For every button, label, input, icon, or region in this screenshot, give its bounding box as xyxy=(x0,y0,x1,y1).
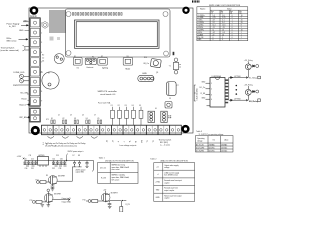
svg-text:0: 0 xyxy=(232,17,233,19)
capacitor C16 xyxy=(60,158,63,164)
svg-text:coupler: coupler xyxy=(164,182,170,184)
svg-text:4.75: 4.75 xyxy=(213,17,216,19)
capacitor C12 xyxy=(31,158,34,164)
svg-text:K2: K2 xyxy=(63,118,65,120)
svg-text:115VDC: 115VDC xyxy=(221,148,228,150)
svg-text:GND: GND xyxy=(156,197,161,199)
dual LED indicator xyxy=(54,54,64,64)
ground G4 xyxy=(108,207,112,209)
svg-text:GND sense: GND sense xyxy=(6,41,17,43)
svg-text:R_PD: R_PD xyxy=(126,204,131,206)
wire rail drop xyxy=(92,161,94,172)
svg-text:P11: P11 xyxy=(30,200,33,202)
svg-text:5: 5 xyxy=(41,62,42,64)
svg-text:13: 13 xyxy=(222,29,224,31)
zener diode ZD2 xyxy=(77,161,81,167)
label 24Vin GND sense xyxy=(6,38,28,43)
svg-text:0: 0 xyxy=(232,29,233,31)
svg-text:F4: F4 xyxy=(132,105,134,107)
svg-text:SMPS PS controller: SMPS PS controller xyxy=(98,90,118,93)
svg-text:5.25: 5.25 xyxy=(222,17,225,19)
diode D5 xyxy=(252,90,255,92)
zener diode ZD1 xyxy=(72,161,76,167)
svg-text:UVT960: UVT960 xyxy=(234,99,241,101)
svg-text:MOSFET: MOSFET xyxy=(58,175,65,177)
svg-text:C31: C31 xyxy=(31,168,34,170)
svg-text:P2: P2 xyxy=(92,56,94,58)
svg-text:R_US: R_US xyxy=(101,178,107,180)
resistor R6 xyxy=(40,181,46,184)
svg-text:3: 3 xyxy=(41,42,42,44)
svg-text:TM2: TM2 xyxy=(156,189,160,191)
svg-text:Mode: Mode xyxy=(126,68,131,70)
diode D3 xyxy=(252,65,255,67)
svg-text:2: 2 xyxy=(41,32,42,34)
svg-text:+TM1: +TM1 xyxy=(155,182,160,184)
svg-text:1: 1 xyxy=(241,34,242,36)
svg-text:230VAC: 230VAC xyxy=(221,144,228,147)
IC U1 pins right xyxy=(225,79,228,103)
label PWR xyxy=(13,85,29,87)
svg-text:1: 1 xyxy=(232,22,233,24)
svg-text:D7: D7 xyxy=(73,155,75,157)
fuse F3 xyxy=(125,105,129,125)
svg-text:GND: GND xyxy=(23,20,28,22)
wire gate 3 xyxy=(86,200,103,202)
jumper pads on terminal dividers xyxy=(51,120,102,124)
IC pin labels xyxy=(199,82,206,100)
table T0 grid xyxy=(197,7,248,41)
svg-text:DC(TL-PE): DC(TL-PE) xyxy=(196,148,205,150)
stamp mark xyxy=(192,0,199,2)
svg-text:2: 2 xyxy=(211,89,212,91)
svg-text:(TL-N-PE) (AC-DC-N) sense (lo: (TL-N-PE) (AC-DC-N) sense (low-res) xyxy=(45,145,77,148)
svg-text:R14: R14 xyxy=(144,57,147,59)
svg-text:Contrast: Contrast xyxy=(86,66,94,69)
svg-text:DC (N-PE): DC (N-PE) xyxy=(196,151,204,153)
LCD module xyxy=(65,9,170,57)
svg-text:8: 8 xyxy=(241,25,242,27)
pad K2 out xyxy=(258,99,261,102)
buzzer xyxy=(42,72,59,89)
svg-text:K1: K1 xyxy=(51,118,53,120)
svg-text:On: On xyxy=(213,139,215,141)
svg-text:C14: C14 xyxy=(52,158,55,160)
relay arrow K1 xyxy=(246,76,248,78)
Comm connector strip (left) xyxy=(30,16,41,106)
fuse F5 xyxy=(139,105,143,125)
svg-text:K4: K4 xyxy=(86,118,88,120)
terminal block row xyxy=(42,125,182,135)
svg-text:PWR: PWR xyxy=(13,85,18,87)
wire drain riser xyxy=(57,167,72,181)
svg-text:F1: F1 xyxy=(111,105,113,107)
terminal id labels vertical xyxy=(107,139,155,142)
transistor Q5 xyxy=(101,193,110,202)
label ISP jump xyxy=(20,117,31,120)
wire Q2 emitter xyxy=(247,95,249,100)
node bracket C AUX GA GND xyxy=(194,85,198,101)
svg-text:Y1: Y1 xyxy=(169,65,171,67)
label Thermal Switch must be connected xyxy=(1,46,30,52)
button S2 xyxy=(98,58,108,66)
capacitor C10 xyxy=(24,158,27,164)
svg-text:11: 11 xyxy=(213,29,215,31)
via cluster xyxy=(168,115,171,118)
wire drain out xyxy=(109,200,126,202)
svg-text:1.6: 1.6 xyxy=(222,15,224,17)
wire bus right of IC xyxy=(229,78,246,101)
resistor R8 xyxy=(92,200,98,203)
svg-text:C16: C16 xyxy=(60,158,63,160)
capacitor C14 xyxy=(52,158,55,164)
svg-text:R2: R2 xyxy=(42,55,44,57)
svg-text:Auto: Auto xyxy=(225,138,229,141)
svg-text:S2: S2 xyxy=(101,56,103,58)
table T3 grid xyxy=(196,136,234,152)
via +5V mark xyxy=(173,52,175,55)
svg-text:J3: J3 xyxy=(70,115,72,117)
label 24VDC power output GND xyxy=(76,169,86,173)
svg-text:11.4: 11.4 xyxy=(213,25,216,27)
table T0 rows xyxy=(198,15,243,41)
svg-text:1: 1 xyxy=(241,32,242,34)
svg-text:in V: in V xyxy=(211,12,213,14)
svg-text:T1: T1 xyxy=(147,140,149,142)
table T2 grid xyxy=(154,163,195,202)
svg-text:D4: D4 xyxy=(42,61,44,63)
wire output xyxy=(52,199,70,201)
table T2 text xyxy=(155,164,182,200)
transformer gray block xyxy=(49,10,66,33)
svg-text:Value: Value xyxy=(227,9,232,11)
capacitor C19 xyxy=(85,161,88,168)
svg-text:S1: S1 xyxy=(74,56,76,58)
connector J6 3-pin xyxy=(148,111,155,122)
IC U1 body xyxy=(210,78,225,108)
svg-text:26: 26 xyxy=(222,34,224,36)
rail part labels xyxy=(25,155,81,170)
svg-text:SMPS LOAD VOLTS DESCRIPTION: SMPS LOAD VOLTS DESCRIPTION xyxy=(209,4,241,7)
svg-text:P10: P10 xyxy=(83,199,86,201)
wire Q1 emitter xyxy=(247,70,249,78)
svg-text:4: 4 xyxy=(41,52,42,54)
svg-text:S3: S3 xyxy=(127,56,129,58)
svg-text:K8_Relay: K8_Relay xyxy=(249,101,259,103)
svg-text:On: On xyxy=(77,67,80,69)
svg-text:1: 1 xyxy=(232,20,233,22)
wire rail xyxy=(25,160,94,162)
brace terminal group 4 xyxy=(91,136,98,138)
svg-text:8: 8 xyxy=(41,91,42,93)
svg-text:4.9: 4.9 xyxy=(213,20,215,22)
svg-text:Fuse 5x20 T2A: Fuse 5x20 T2A xyxy=(98,102,111,105)
table T0 header text xyxy=(200,9,242,15)
svg-text:D8: D8 xyxy=(78,155,80,157)
svg-text:K3: K3 xyxy=(74,118,76,120)
ground G1 xyxy=(51,189,55,191)
svg-text:J7: J7 xyxy=(94,115,96,117)
ellipsis dots between stages xyxy=(236,85,238,95)
mounting hole top-left xyxy=(30,6,39,15)
ground G2 xyxy=(41,205,45,207)
svg-text:K5: K5 xyxy=(98,118,100,120)
label 24VDC power output xyxy=(67,150,84,160)
label Power Supply In 24V xyxy=(7,23,29,29)
svg-text:2: 2 xyxy=(241,17,242,19)
svg-text:C30: C30 xyxy=(25,168,28,170)
label Boot xyxy=(20,103,31,106)
svg-text:1: 1 xyxy=(211,83,212,85)
svg-text:3.2: 3.2 xyxy=(213,22,215,24)
svg-text:C12: C12 xyxy=(31,158,34,160)
svg-text:GND: GND xyxy=(142,73,147,75)
capacitor C17 xyxy=(51,185,55,189)
table T3 text xyxy=(196,137,228,153)
svg-text:Output to TL: Output to TL xyxy=(62,197,71,200)
label thermal switch NC xyxy=(159,139,172,147)
button S4 xyxy=(150,58,161,67)
svg-text:115VDC: 115VDC xyxy=(209,148,216,150)
svg-text:20: 20 xyxy=(241,22,243,24)
svg-text:C AUX GA GND: C AUX GA GND xyxy=(196,88,199,101)
svg-text:( + - in use): ( + - in use) xyxy=(160,145,170,147)
capacitor C13 xyxy=(34,161,37,165)
transistor Q2 xyxy=(245,89,251,95)
svg-text:Table 2: Table 2 xyxy=(150,159,156,161)
svg-text:TL OUTPUT vs operating volta: TL OUTPUT vs operating voltage xyxy=(199,133,224,136)
svg-text:Table 1: Table 1 xyxy=(99,158,105,160)
board ref designators xyxy=(41,23,178,122)
label GND top-left xyxy=(23,20,29,22)
capacitor C11 xyxy=(27,161,30,165)
svg-text:C32: C32 xyxy=(52,168,55,170)
svg-text:J6: J6 xyxy=(155,108,157,110)
svg-text:C33: C33 xyxy=(59,168,62,170)
svg-text:115VDC: 115VDC xyxy=(221,151,228,153)
PCB board outline xyxy=(29,8,193,133)
pin 5 stub xyxy=(207,105,211,107)
svg-text:C11: C11 xyxy=(29,155,32,157)
capacitor square C8 xyxy=(165,102,172,108)
svg-text:10: 10 xyxy=(241,15,243,17)
svg-text:Q9: Q9 xyxy=(156,72,158,74)
svg-text:20: 20 xyxy=(241,20,243,22)
svg-text:F5: F5 xyxy=(139,105,141,107)
svg-text:K1_Relay: K1_Relay xyxy=(249,77,257,79)
svg-text:0: 0 xyxy=(213,37,214,39)
svg-text:-5.3: -5.3 xyxy=(222,32,225,34)
table T1 grid xyxy=(98,162,138,183)
svg-text:in V: in V xyxy=(221,12,223,14)
svg-text:20: 20 xyxy=(213,34,215,36)
brace terminal group 3 xyxy=(77,136,84,138)
svg-text:C10: C10 xyxy=(24,158,27,160)
svg-text:1: 1 xyxy=(41,23,42,25)
svg-text:Low voltage outputs: Low voltage outputs xyxy=(120,144,137,147)
electrolytic capacitor C7 xyxy=(167,82,177,96)
ground rail 1 xyxy=(24,165,38,166)
svg-text:1.4: 1.4 xyxy=(213,15,215,17)
trimmer contrast xyxy=(85,58,96,64)
svg-text:T2: T2 xyxy=(153,140,155,142)
svg-text:0: 0 xyxy=(232,27,233,29)
LED D1 xyxy=(19,74,29,78)
svg-text:0: 0 xyxy=(232,34,233,36)
svg-text:TL: TL xyxy=(130,140,132,142)
relay stage 1 xyxy=(230,60,260,79)
svg-text:+24V: +24V xyxy=(17,156,22,158)
node supply xyxy=(47,189,50,192)
svg-text:lighting: lighting xyxy=(102,67,108,70)
svg-text:J2: J2 xyxy=(58,115,60,117)
svg-text:UVT960: UVT960 xyxy=(234,76,241,78)
svg-text:C15: C15 xyxy=(56,155,59,157)
svg-text:F2: F2 xyxy=(118,105,120,107)
crystal Y1 xyxy=(173,58,180,74)
svg-text:5: 5 xyxy=(222,37,223,39)
svg-text:JP1: JP1 xyxy=(46,119,49,121)
svg-text:24VDC power: 24VDC power xyxy=(76,169,86,171)
brace terminal group 1 xyxy=(48,136,55,138)
svg-text:from 4R59B sensor: from 4R59B sensor xyxy=(164,175,178,177)
svg-text:6: 6 xyxy=(41,71,42,73)
svg-text:0: 0 xyxy=(222,39,223,41)
label NC_SW xyxy=(21,92,30,94)
wire gate 2 xyxy=(35,201,46,203)
label C2 xyxy=(41,55,51,75)
svg-text:Output GND: Output GND xyxy=(62,200,72,203)
board title text xyxy=(98,90,118,96)
svg-text:1: 1 xyxy=(241,37,242,39)
jumper pad labels xyxy=(51,118,100,120)
svg-text:-11: -11 xyxy=(213,27,215,29)
svg-text:16: 16 xyxy=(241,29,243,31)
svg-text:Off_On: Off_On xyxy=(143,63,149,65)
svg-text:0: 0 xyxy=(213,39,214,41)
svg-text:0: 0 xyxy=(232,25,233,27)
svg-text:115VDC: 115VDC xyxy=(209,151,216,153)
svg-text:-4.7: -4.7 xyxy=(213,32,216,34)
svg-text:F3: F3 xyxy=(125,105,127,107)
resistor R7 xyxy=(36,201,42,204)
LCD pin header pads xyxy=(72,13,122,16)
diode D4 on base wire xyxy=(230,76,233,78)
svg-text:C2: C2 xyxy=(42,58,44,60)
terminal caption lines xyxy=(45,142,86,148)
ISP connector J5 xyxy=(138,75,154,81)
mounting hole bottom-right xyxy=(181,125,189,133)
svg-text:DO_On: DO_On xyxy=(100,167,106,169)
transistor Q4 xyxy=(44,194,53,203)
svg-text:coupler: coupler xyxy=(164,198,170,200)
table T1 text xyxy=(100,164,130,182)
LED D2 xyxy=(19,79,29,83)
IC U1 pins left xyxy=(206,83,211,99)
svg-text:DONE_LED: DONE_LED xyxy=(14,72,25,74)
svg-text:voltage: voltage xyxy=(197,140,203,143)
svg-text:-13: -13 xyxy=(222,27,224,29)
connector block J9 (2-pin) xyxy=(30,108,41,122)
svg-text:J4: J4 xyxy=(82,115,84,117)
brace terminal group 2 xyxy=(62,136,69,138)
ground rail 2 xyxy=(52,165,67,166)
mounting hole top-right xyxy=(182,7,189,14)
diode D6 on base wire xyxy=(230,99,233,101)
svg-text:R5: R5 xyxy=(46,175,48,177)
svg-text:12.6: 12.6 xyxy=(222,25,225,27)
connector J7 3-pin xyxy=(161,111,167,122)
fuse F1 xyxy=(111,105,115,125)
junction node 2 xyxy=(32,201,35,204)
label GND 2 xyxy=(19,30,29,32)
svg-text:C9: C9 xyxy=(169,98,171,100)
svg-text:4: 4 xyxy=(211,99,212,101)
fuse F2 xyxy=(118,105,122,125)
hex standoff xyxy=(42,22,48,29)
svg-text:230VAC: 230VAC xyxy=(209,144,216,147)
svg-text:Reset: Reset xyxy=(22,98,28,101)
svg-text:DO_On: DO_On xyxy=(199,87,205,89)
svg-text:AC (TL-N): AC (TL-N) xyxy=(196,144,204,147)
IC U1 pin numbers xyxy=(211,83,212,101)
relay arrow K2 xyxy=(246,99,248,101)
svg-text:Table 3: Table 3 xyxy=(196,131,202,133)
capacitor C17b xyxy=(63,161,66,165)
capacitor C18 xyxy=(108,203,112,206)
svg-text:MOSFET: MOSFET xyxy=(54,193,61,195)
wire gate xyxy=(39,181,50,183)
transistor Q1 xyxy=(245,64,251,70)
svg-text:3: 3 xyxy=(211,94,212,96)
label Output to TL xyxy=(62,197,72,204)
ground G3 xyxy=(47,203,51,207)
svg-text:2x Relay out 2x Relay out 2x R: 2x Relay out 2x Relay out 2x Relay out 2… xyxy=(45,142,86,145)
svg-text:ANALOG INPUTS DESCRIPTION: ANALOG INPUTS DESCRIPTION xyxy=(161,159,189,162)
resistor R_PD xyxy=(120,207,123,213)
node pad K2 xyxy=(256,90,259,93)
svg-text:R7: R7 xyxy=(48,73,50,75)
junction node 3 xyxy=(88,200,91,203)
svg-text:(must be connected): (must be connected) xyxy=(1,49,20,52)
junction node J xyxy=(36,181,39,184)
mounting hole bottom-left xyxy=(31,126,40,135)
node pad K1 xyxy=(256,65,259,68)
button S1 xyxy=(73,58,82,66)
label DONE_LED xyxy=(14,72,25,74)
fuse F4 xyxy=(132,105,136,125)
svg-text:7: 7 xyxy=(41,81,42,83)
svg-text:MOSFET: MOSFET xyxy=(111,193,118,195)
LCD screen xyxy=(75,20,160,48)
relay stage 2 xyxy=(230,84,260,103)
svg-text:Boot_0: Boot_0 xyxy=(20,103,27,106)
svg-text:In_24V: In_24V xyxy=(9,26,16,28)
svg-text:GND: GND xyxy=(19,30,24,32)
svg-text:0: 0 xyxy=(232,15,233,17)
capacitor C15 xyxy=(56,161,59,165)
svg-text:0: 0 xyxy=(232,32,233,34)
label L N PE vertical xyxy=(43,141,48,144)
svg-text:3.4: 3.4 xyxy=(222,22,224,24)
transistor Q3 xyxy=(48,176,57,185)
svg-text:1: 1 xyxy=(241,27,242,29)
svg-text:Name: Name xyxy=(200,9,206,11)
svg-text:Forward wave from: Forward wave from xyxy=(164,188,178,190)
svg-text:C7: C7 xyxy=(177,85,179,87)
svg-text:ISP_EN: ISP_EN xyxy=(20,117,28,119)
regulator U2 xyxy=(38,155,49,167)
